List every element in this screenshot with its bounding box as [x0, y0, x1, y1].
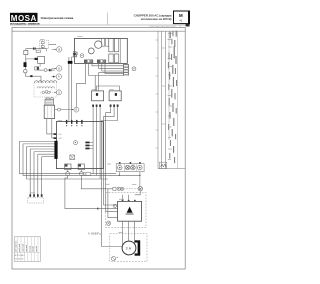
- wire U1 pin3 to XS2: [92, 63, 124, 66]
- brush holder bracket: [135, 240, 141, 255]
- wire K2 pin2: [104, 107, 118, 205]
- wire lamp4 to HL7: [139, 172, 141, 187]
- wire K2 pin1: [106, 107, 118, 212]
- board tab: [73, 52, 76, 57]
- wire bus 7: [41, 157, 43, 195]
- node Б ref: [52, 66, 62, 71]
- wire bus 6: [37, 154, 39, 194]
- dashed link to HL7: [124, 188, 138, 190]
- MOSA logo block: [10, 13, 40, 26]
- pin block: [35, 58, 38, 60]
- wire K1 pin3: [99, 107, 101, 179]
- wire XS2 to K1 coil b: [95, 76, 124, 91]
- lamp HL7: [138, 187, 142, 191]
- relay K1: [92, 91, 104, 107]
- connector ticks: [33, 47, 34, 49]
- wire XS2 to K1 coil a: [99, 73, 124, 91]
- designator circle: [80, 54, 84, 58]
- motor M1: [122, 241, 136, 255]
- wire S1 out: [49, 43, 55, 45]
- rectifier dashed enclosure: [106, 193, 146, 228]
- wire U1 pin2: [89, 63, 96, 75]
- indicator P3: [120, 187, 123, 190]
- hole H2: [88, 48, 94, 54]
- varistor RU: [83, 173, 90, 176]
- lamp HL2: [125, 165, 130, 170]
- frame top inner line: [12, 30, 185, 32]
- node designator at XS2: [132, 67, 136, 71]
- legend table: [14, 237, 40, 262]
- control PCB U2: [54, 120, 104, 169]
- wire XP1 pin1: [47, 119, 55, 134]
- ground terminal: [111, 256, 118, 260]
- capacitor C3: [114, 38, 118, 51]
- inline connector CN: [68, 61, 73, 64]
- black mark under code box: [186, 24, 190, 27]
- switch S1 dashed box: [40, 40, 49, 48]
- wire U1 pin5 to XS2: [102, 63, 124, 71]
- capacitor C6 under U2: [78, 164, 84, 176]
- lamp HL4: [138, 165, 143, 170]
- svg-text:А: А: [58, 75, 60, 79]
- svg-text:41: 41: [179, 19, 182, 23]
- connector XS3 dashed shell: [28, 198, 44, 203]
- relay K3: [38, 56, 45, 63]
- bridge rectifier VD1: [118, 200, 142, 221]
- svg-text:M: M: [179, 13, 183, 18]
- svg-text:A 50/60Гц: A 50/60Гц: [88, 232, 101, 236]
- wire K1-K2 link: [97, 86, 120, 91]
- wire XP1 pin2: [52, 119, 55, 138]
- wire into T1: [40, 76, 42, 82]
- wire harness trunk lines: [158, 31, 185, 168]
- lamp block box: [116, 164, 144, 172]
- svg-text:Ж З К Ч Б С: Ж З К Ч Б С: [15, 255, 26, 257]
- wire to T1: [25, 75, 41, 77]
- relay RL2 on board: [106, 38, 109, 46]
- sheet frame: [12, 27, 185, 269]
- node B ref: [52, 47, 62, 52]
- lamp HL1: [118, 165, 122, 169]
- wire bus 4: [29, 149, 31, 194]
- wire HL7 down: [135, 191, 140, 195]
- wire bus 1: [19, 141, 83, 173]
- svg-text:серый: серый: [35, 246, 38, 252]
- sheet code box M 41: [174, 11, 191, 24]
- hole H1: [95, 41, 102, 48]
- svg-text:MOSA: MOSA: [11, 14, 37, 23]
- U1 pin row: [84, 60, 106, 63]
- svg-text:ЗА: ЗА: [126, 246, 132, 250]
- svg-text:синий: синий: [32, 247, 35, 252]
- harness wire destination labels: [168, 31, 177, 164]
- node Е ref: [55, 107, 79, 112]
- capacitor C5 under U2: [65, 164, 71, 176]
- wire C6 to bus: [81, 176, 113, 189]
- revision cells row: [150, 25, 180, 27]
- pickup point: [75, 52, 77, 54]
- title right: CHOPPER 200 AC: [134, 13, 172, 21]
- header underline: [10, 24, 190, 26]
- indicator P2: [117, 187, 120, 190]
- svg-text:жёлтый бел.: жёлтый бел.: [15, 240, 18, 252]
- bus to U2 pins: [19, 141, 54, 156]
- terminal X1: [106, 221, 110, 225]
- wire U1 pin6 to XS2: [105, 63, 124, 73]
- wire K1 pin1: [92, 107, 94, 174]
- svg-text:красный: красный: [22, 244, 25, 252]
- svg-text:Е: Е: [76, 108, 78, 112]
- node А ref: [51, 74, 61, 79]
- svg-text:белый: белый: [28, 246, 31, 252]
- PCB board U1: [73, 38, 127, 63]
- svg-text:Электрическая схема: Электрическая схема: [41, 16, 74, 20]
- center wire pair: [68, 57, 70, 122]
- designator P1: [113, 204, 116, 207]
- component F1: [24, 50, 28, 54]
- bus riser row2 to bridge: [108, 189, 118, 218]
- svg-text:зелёный: зелёный: [18, 244, 21, 252]
- ignition module XP1: [44, 98, 54, 119]
- wire U1 pin4 to XS2: [99, 63, 124, 68]
- terminal ring: [24, 70, 27, 73]
- capacitor C2: [109, 54, 113, 63]
- capacitor C1: [109, 38, 113, 51]
- wire bus 2: [23, 144, 140, 176]
- svg-text:чёрный: чёрный: [25, 245, 28, 252]
- wire lamp1 to bus: [118, 172, 120, 176]
- wire bus 3: [27, 147, 108, 180]
- wire K2 pin3 to motor: [102, 107, 123, 247]
- wires bridge top: [122, 195, 124, 200]
- relay RL1 on board: [102, 38, 105, 46]
- terminal strip: [36, 50, 40, 52]
- wire C5 to bridge bus: [65, 176, 118, 209]
- wires bridge to motor: [122, 221, 124, 245]
- wires U2 right pins: [90, 141, 94, 143]
- wire R1 out: [39, 69, 44, 71]
- header divider: [107, 13, 109, 25]
- terminal square X2: [113, 187, 116, 190]
- small designator labels: [31, 37, 137, 233]
- terminal circle: [44, 69, 47, 72]
- resistor R1: [35, 67, 39, 70]
- capacitor C4: [114, 54, 118, 63]
- connector XS2: [123, 64, 129, 75]
- svg-text:В: В: [58, 47, 60, 51]
- motor dashed enclosure: [110, 234, 147, 262]
- diode VD2: [24, 62, 27, 67]
- harness tap stubs: [156, 40, 166, 148]
- wire to S1: [26, 48, 47, 50]
- wire down left: [25, 55, 27, 63]
- wire K1 pin2: [96, 107, 98, 175]
- svg-text:исполнение на 220 В): исполнение на 220 В): [141, 17, 172, 21]
- svg-text:1 2 3 4 5 6: 1 2 3 4 5 6: [15, 258, 23, 260]
- harness terminal box: [159, 162, 166, 168]
- wire U1 pin1 to node G: [76, 63, 85, 107]
- stator winding T1: [34, 81, 57, 97]
- wire bus 5: [33, 152, 35, 195]
- svg-text:Б: Б: [58, 66, 60, 70]
- node З ref: [55, 90, 62, 95]
- wire to K3: [26, 58, 35, 60]
- wire S1 drop: [41, 47, 43, 48]
- T1 aux taps: [40, 91, 55, 93]
- relay K2: [109, 91, 121, 107]
- connector XS3 pins: [29, 194, 42, 197]
- lamp HL3: [131, 165, 136, 170]
